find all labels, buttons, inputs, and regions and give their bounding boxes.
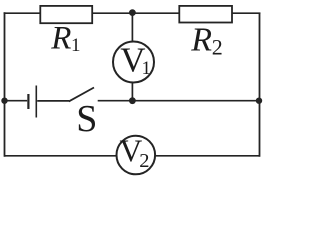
wire: left edge to battery <box>5 100 28 102</box>
node: left middle junction <box>1 98 7 104</box>
svg-text:1: 1 <box>142 58 152 79</box>
wire: middle right <box>132 100 259 102</box>
wire: bottom left <box>5 155 118 157</box>
node: center junction <box>129 97 136 104</box>
node: right middle junction <box>256 98 262 104</box>
wire: outer right vertical <box>259 13 261 157</box>
wire: V1 top lead <box>131 13 133 43</box>
wire: bottom right <box>155 155 260 157</box>
svg-text:2: 2 <box>212 35 223 60</box>
wire: battery to switch <box>37 100 69 102</box>
resistor R2 <box>179 6 232 23</box>
switch S lever <box>69 88 94 102</box>
node: top junction <box>129 9 136 16</box>
voltmeter V2 <box>117 136 156 175</box>
battery cell: short plate <box>27 94 29 109</box>
svg-text:1: 1 <box>71 35 81 56</box>
wire: top horizontal <box>4 12 261 14</box>
svg-text:2: 2 <box>139 150 149 172</box>
wire: switch to center node <box>98 100 133 102</box>
voltmeter V1 <box>113 42 154 83</box>
svg-text:S: S <box>76 98 97 140</box>
wire: V1 bottom lead <box>131 83 133 101</box>
wire: outer left vertical <box>4 12 6 156</box>
svg-text:R: R <box>50 21 71 57</box>
resistor R1 <box>40 6 92 23</box>
battery cell: long plate <box>35 86 37 118</box>
svg-text:R: R <box>190 21 212 58</box>
